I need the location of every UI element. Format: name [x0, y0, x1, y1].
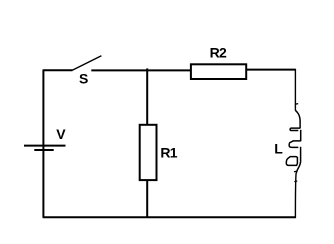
tick 2 on right wire below coil — [294, 180, 297, 183]
wire: right vertical lower (coil to bottom) — [294, 173, 297, 218]
tick on right wire above coil — [295, 103, 298, 106]
node: junction of middle branch with top wire — [146, 68, 148, 70]
battery V short plate — [34, 149, 53, 151]
wire: right vertical upper (to inductor) — [294, 69, 296, 111]
svg-text:V: V — [56, 126, 66, 142]
wire: top middle segment (switch to R2) — [91, 69, 191, 71]
svg-text:R1: R1 — [160, 144, 177, 160]
battery V long plate — [24, 145, 66, 147]
wire: top-left segment to switch — [43, 69, 73, 71]
wire: middle branch upper (top wire to R1) — [146, 70, 148, 125]
resistor R2 — [191, 64, 246, 79]
tick on right wire below coil — [294, 170, 297, 173]
wire: middle branch lower (R1 to bottom wire) — [146, 180, 148, 217]
wire: top right segment (R2 to right branch) — [246, 69, 295, 71]
svg-text:L: L — [274, 141, 283, 157]
resistor R1 — [140, 125, 157, 180]
switch S blade — [72, 56, 101, 71]
wire: left vertical (battery branch) — [42, 70, 44, 217]
svg-text:R2: R2 — [210, 45, 227, 61]
svg-text:S: S — [79, 70, 88, 86]
inductor L coil (hand drawn) — [286, 110, 301, 173]
wire: bottom horizontal — [43, 216, 296, 218]
